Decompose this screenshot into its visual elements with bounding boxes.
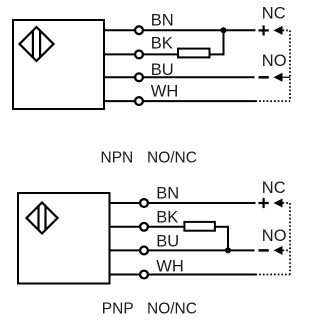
plus terminal (PNP): [259, 198, 269, 208]
svg-text:NO/NC: NO/NC: [147, 300, 197, 317]
terminal circle BK (PNP): [140, 223, 148, 231]
dotted elbow from NC arrow to vertical (PNP): [283, 202, 291, 204]
wire BK (NPN): [104, 53, 179, 55]
proximity sensor symbol (diamond with bars, PNP): [27, 203, 58, 234]
NO arrow (NPN): [274, 73, 283, 82]
NC arrow (PNP): [274, 199, 283, 208]
svg-text:NC: NC: [262, 4, 286, 22]
dotted vertical bus (NPN): [289, 30, 291, 101]
svg-text:BK: BK: [156, 208, 178, 226]
NC arrow (NPN): [274, 26, 283, 35]
dotted elbow from NC arrow to vertical (NPN): [283, 29, 291, 31]
dotted horizontal from WH to vertical (PNP): [256, 274, 291, 276]
svg-text:BK: BK: [151, 35, 173, 53]
wire WH (PNP): [110, 274, 256, 276]
svg-text:BU: BU: [156, 233, 179, 251]
terminal circle BK (NPN): [135, 51, 143, 59]
minus terminal (PNP): [259, 249, 269, 252]
svg-text:WH: WH: [156, 257, 184, 275]
thin link NO arrow to vertical (NPN): [283, 76, 291, 78]
terminal circle BU (PNP): [140, 247, 148, 255]
svg-text:BN: BN: [151, 12, 174, 30]
NO arrow (PNP): [274, 246, 283, 255]
terminal circle BU (NPN): [135, 73, 143, 81]
terminal circle WH (PNP): [140, 271, 148, 279]
terminal circle BN (NPN): [135, 26, 143, 34]
junction dot on BU line (PNP): [225, 247, 231, 253]
wire WH (NPN): [104, 100, 256, 102]
svg-text:NPN: NPN: [101, 149, 134, 166]
wire from resistor to dropper (PNP): [215, 226, 228, 228]
proximity sensor symbol (diamond with bars, NPN): [20, 27, 54, 61]
dotted horizontal from WH to vertical (NPN): [256, 100, 291, 102]
minus terminal (NPN): [259, 76, 269, 79]
svg-text:PNP: PNP: [102, 300, 134, 317]
svg-text:NO/NC: NO/NC: [147, 149, 197, 166]
terminal circle WH (NPN): [135, 97, 143, 105]
plus terminal (NPN): [259, 25, 269, 35]
dotted link NO arrow to vertical (PNP): [283, 249, 291, 251]
svg-text:NC: NC: [262, 179, 286, 197]
terminal circle BN (PNP): [140, 199, 148, 207]
wire BN (NPN): [104, 29, 256, 31]
svg-text:WH: WH: [151, 83, 179, 101]
sensor body box (PNP): [18, 193, 110, 284]
sensor body box (NPN): [13, 20, 104, 109]
load resistor (NPN): [178, 49, 210, 58]
wire from resistor to riser (NPN): [210, 53, 224, 55]
svg-text:NO: NO: [262, 52, 287, 70]
wire BU (PNP): [110, 249, 255, 251]
wire BU (NPN): [104, 76, 255, 78]
load resistor (PNP): [184, 222, 215, 231]
wire BN (PNP): [110, 202, 256, 204]
junction dot on BN line (NPN): [221, 27, 227, 33]
wire BK (PNP): [110, 226, 186, 228]
riser wire BK to BN junction (NPN): [223, 30, 225, 55]
svg-text:BU: BU: [151, 61, 174, 79]
dotted vertical bus (PNP): [289, 203, 291, 275]
drop wire BK to BU junction (PNP): [227, 226, 229, 251]
svg-text:BN: BN: [156, 185, 179, 203]
svg-text:NO: NO: [262, 227, 287, 245]
